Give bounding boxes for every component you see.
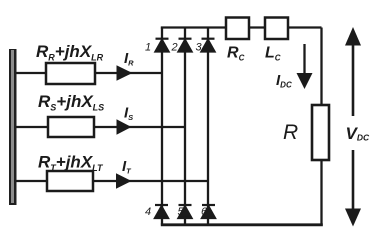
diode D5: [179, 205, 192, 218]
svg-text:RS+jhXLS: RS+jhXLS: [38, 92, 104, 113]
svg-text:VDC: VDC: [346, 124, 370, 143]
svg-text:R: R: [283, 121, 298, 144]
wire phase T: [16, 180, 208, 182]
source bus bar highlight: [11, 50, 14, 203]
wire right drop to load: [320, 28, 322, 107]
voltage arrow VDC down: [345, 150, 361, 227]
wire top DC bus: [161, 26, 322, 28]
svg-text:2: 2: [171, 42, 178, 54]
current arrow IS: [117, 119, 132, 134]
diode D6: [202, 205, 215, 218]
wire bottom DC bus: [161, 223, 323, 226]
wire bridge leg 3: [207, 28, 209, 225]
svg-text:4: 4: [145, 206, 151, 218]
resistor RC box: [226, 18, 249, 40]
svg-text:IS: IS: [124, 105, 133, 123]
wire phase R: [16, 72, 162, 74]
svg-text:RR+jhXLR: RR+jhXLR: [36, 42, 104, 63]
wire load bottom: [320, 159, 322, 226]
diode D3: [202, 39, 215, 52]
inductor LC box: [265, 18, 288, 40]
current arrow IT: [116, 173, 132, 188]
svg-text:IT: IT: [122, 158, 132, 176]
svg-text:RC: RC: [227, 45, 245, 63]
svg-text:IR: IR: [124, 50, 134, 68]
wire bridge leg 2: [184, 28, 186, 225]
source bus bar: [9, 49, 17, 205]
resistor R load box: [312, 105, 329, 160]
voltage arrow VDC up: [345, 27, 361, 116]
impedance box ZS: [48, 117, 94, 137]
diode D4: [155, 205, 168, 218]
current arrow IR: [117, 65, 133, 80]
impedance box ZR: [46, 63, 95, 84]
wire phase S: [16, 126, 185, 128]
svg-text:6: 6: [201, 206, 208, 218]
svg-text:IDC: IDC: [276, 72, 292, 90]
svg-text:RT+jhXLT: RT+jhXLT: [38, 153, 104, 174]
current arrow IDC: [297, 44, 313, 89]
diode D1: [156, 39, 169, 52]
svg-text:5: 5: [178, 206, 185, 218]
svg-text:LC: LC: [265, 45, 281, 63]
wire bridge leg 1: [161, 28, 163, 225]
impedance box ZT: [47, 171, 93, 191]
svg-text:3: 3: [196, 42, 203, 54]
diode D2: [179, 39, 192, 52]
svg-text:1: 1: [145, 42, 151, 54]
